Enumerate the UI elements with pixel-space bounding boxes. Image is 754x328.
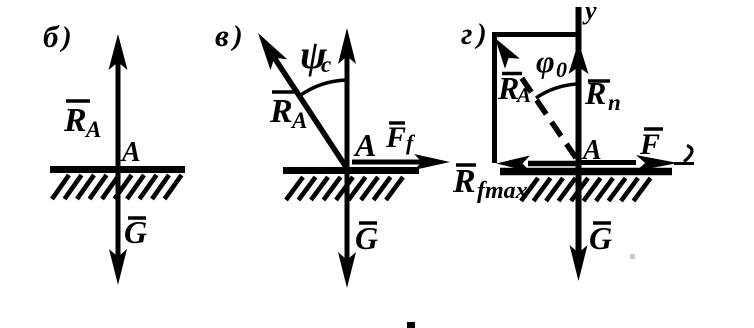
svg-text:G: G: [355, 220, 378, 256]
svg-text:A: A: [581, 135, 602, 166]
svg-text:F: F: [639, 128, 660, 161]
svg-text:n: n: [608, 90, 621, 115]
svg-text:fmax: fmax: [477, 178, 528, 204]
svg-text:y: y: [582, 0, 597, 25]
svg-text:0: 0: [556, 57, 567, 82]
svg-text:F: F: [385, 121, 406, 154]
svg-text:R: R: [63, 102, 87, 139]
svg-text:φ: φ: [536, 43, 555, 79]
svg-text:R: R: [452, 163, 476, 200]
svg-text:A: A: [515, 83, 531, 107]
svg-text:A: A: [120, 137, 141, 168]
svg-text:б: б: [43, 19, 60, 54]
svg-text:R: R: [269, 93, 293, 130]
svg-text:г: г: [461, 16, 472, 51]
svg-text:A: A: [84, 117, 101, 142]
svg-text:R: R: [497, 70, 519, 106]
svg-text:G: G: [589, 220, 612, 256]
svg-text:в: в: [215, 18, 229, 53]
svg-text:A: A: [353, 127, 376, 163]
svg-text:c: c: [321, 52, 331, 77]
svg-text:A: A: [290, 108, 307, 133]
